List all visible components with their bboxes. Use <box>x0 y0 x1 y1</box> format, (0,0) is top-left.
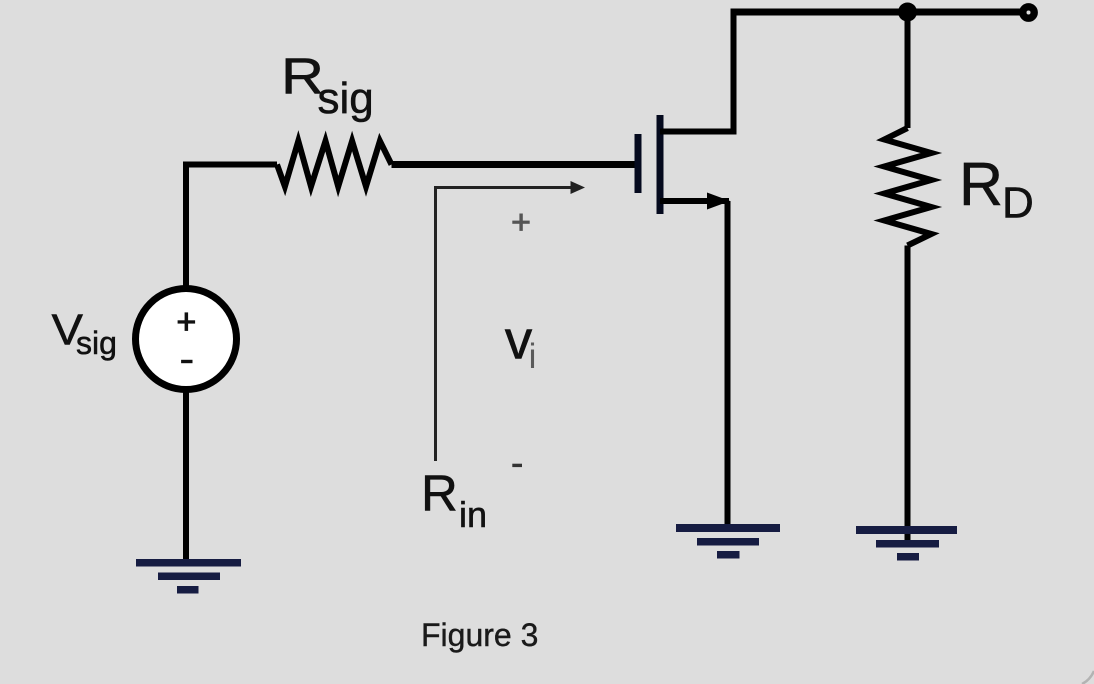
transistor Q1 source arrow <box>707 193 730 210</box>
measurement arrow Rin / vi <box>436 188 572 462</box>
wire from source to resistor <box>186 165 277 290</box>
resistor Rsig zigzag <box>277 141 392 187</box>
wire source riser <box>725 201 731 526</box>
transistor Q1 drain lead <box>660 129 737 135</box>
resistor RD zigzag <box>884 128 931 246</box>
source Vsig plus <box>178 312 196 331</box>
ground for transistor source <box>676 524 780 559</box>
ground for RD <box>856 526 957 561</box>
svg-text:D: D <box>1002 178 1034 227</box>
ground for Vsig <box>136 559 241 594</box>
svg-text:sig: sig <box>76 325 117 361</box>
svg-text:sig: sig <box>318 74 374 123</box>
wire gate <box>392 161 635 168</box>
transistor Q1 channel bar <box>657 115 664 214</box>
wire RD bottom lead <box>905 246 911 548</box>
output terminal open circle <box>1023 7 1034 18</box>
source Vsig circle <box>136 289 237 390</box>
transistor Q1 gate bar <box>635 134 642 193</box>
wire top rail <box>731 9 1021 16</box>
wire drain riser <box>731 9 737 132</box>
source Vsig minus <box>181 360 192 363</box>
svg-text:Figure 3: Figure 3 <box>421 617 538 653</box>
transistor Q1 source lead <box>660 198 729 204</box>
wire below source <box>183 390 189 563</box>
label minus below vi <box>512 464 522 467</box>
svg-text:R: R <box>959 150 1003 218</box>
label plus above arrow <box>512 214 529 231</box>
svg-text:R: R <box>421 464 458 521</box>
svg-text:i: i <box>529 337 537 376</box>
corner artifact <box>1082 671 1094 684</box>
svg-text:in: in <box>459 494 487 535</box>
node A junction dot <box>898 3 917 22</box>
wire RD top lead <box>905 12 911 128</box>
